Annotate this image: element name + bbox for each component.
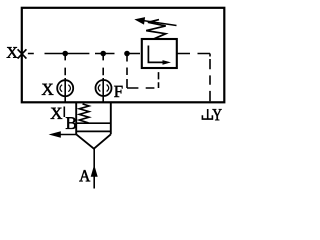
wire through orifice X <box>64 78 66 102</box>
node above orifice F <box>100 51 106 57</box>
pilot line X dashes <box>28 53 140 55</box>
manifold block outline <box>22 8 225 103</box>
orifice X circle <box>57 80 73 96</box>
port B line <box>60 134 77 136</box>
spring adjust arrow <box>141 20 177 25</box>
port A line <box>93 149 95 189</box>
pilot X stub label <box>51 108 63 119</box>
orifice F circle <box>96 80 112 96</box>
pilot line right of relief (dashed) <box>178 54 211 102</box>
cartridge poppet <box>76 134 111 148</box>
port A arrowhead <box>91 165 98 177</box>
wire up to relief bottom (dashed) <box>158 72 160 88</box>
port A label <box>79 170 90 181</box>
node above orifice X <box>62 51 68 57</box>
node at relief branch <box>124 51 130 57</box>
cartridge seat line lower <box>76 130 111 132</box>
relief valve body U1 <box>142 39 177 68</box>
port X label <box>7 47 18 58</box>
orifice X label <box>42 84 54 95</box>
pilot X stub tick <box>63 107 65 118</box>
branch to relief drain (dashed) <box>126 56 128 89</box>
orifice F label <box>114 86 122 97</box>
tank symbol at Y <box>207 109 209 119</box>
relief valve flow arrowhead <box>163 60 172 65</box>
port Y label <box>213 109 222 120</box>
spring adjust arrowhead <box>134 17 145 25</box>
relief valve spring <box>146 20 166 39</box>
port B label <box>66 117 76 129</box>
cartridge seat line upper <box>76 122 111 124</box>
port B arrowhead <box>49 131 61 137</box>
wire node to orifice X (dashed) <box>64 55 66 75</box>
port X plug mark <box>18 49 27 58</box>
cartridge spring <box>79 104 89 123</box>
relief valve flow path <box>148 46 163 63</box>
wire through orifice F <box>102 78 104 102</box>
wire node to orifice F (dashed) <box>102 55 104 75</box>
wire under relief (dashed) <box>127 87 154 89</box>
cartridge valve body sides <box>76 102 111 134</box>
